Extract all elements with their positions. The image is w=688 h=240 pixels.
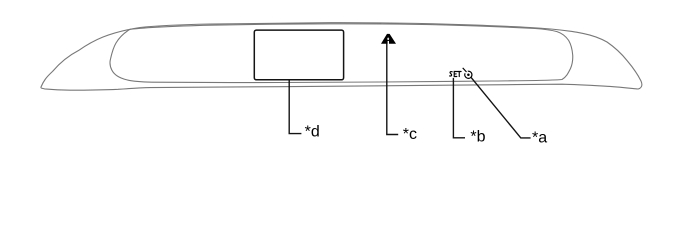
svg-text:*d: *d [305, 124, 320, 141]
svg-text:*b: *b [470, 128, 485, 145]
svg-text:*c: *c [403, 126, 417, 143]
svg-text:*a: *a [532, 130, 547, 147]
